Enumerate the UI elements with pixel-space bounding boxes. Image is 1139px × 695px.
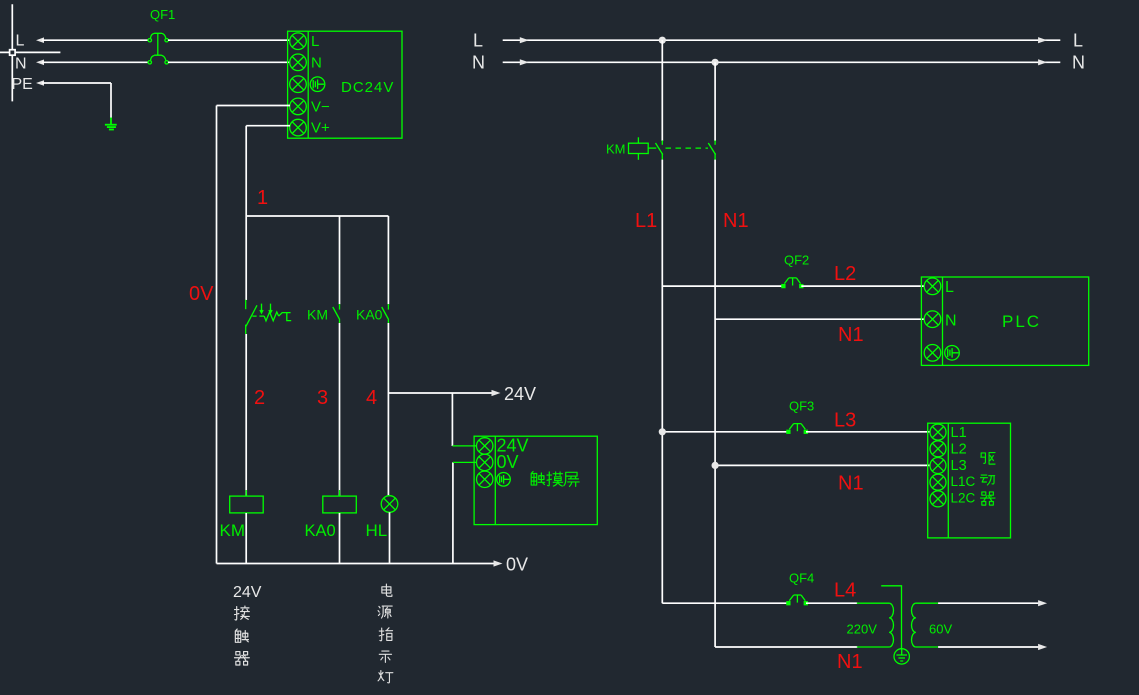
svg-text:L3: L3 (951, 458, 967, 474)
wire QF1 to DC24V L (168, 39, 290, 41)
wire touchscreen 0V down (452, 462, 454, 563)
svg-text:N: N (472, 53, 485, 73)
glyph dian (power indicator label) (382, 584, 392, 596)
svg-text:0V: 0V (506, 555, 528, 575)
terminal L1C of driver (930, 474, 946, 490)
svg-text:L: L (1073, 31, 1083, 51)
wire branch 3 to 0V bus (339, 513, 341, 564)
transformer T1 secondary winding (912, 603, 916, 647)
arrow L left (520, 37, 529, 43)
wire branch 4 to 0V bus (389, 512, 391, 563)
wire QF4 to transformer (806, 602, 858, 604)
wire branch 2 lower (245, 334, 247, 496)
label driver (qu dong qi) vertical (981, 453, 995, 465)
svg-text:L: L (311, 33, 319, 50)
wire branch 4 middle (387, 323, 389, 496)
servo driver unit box (928, 423, 1011, 538)
glyph chu (contactor label) (235, 629, 248, 642)
wire branch 3 upper (339, 216, 341, 304)
transformer shield wire (881, 586, 901, 649)
wire green primary top lead (857, 602, 889, 604)
svg-text:N1: N1 (837, 651, 863, 673)
svg-text:V−: V− (311, 99, 330, 116)
arrow N right (1038, 59, 1047, 65)
wire branch 3 lower (339, 323, 341, 496)
svg-text:N: N (945, 312, 957, 329)
arrow secondary top (1038, 600, 1047, 606)
svg-text:KA0: KA0 (305, 522, 336, 540)
svg-text:L1C: L1C (951, 474, 976, 489)
terminal L of PLC (924, 278, 941, 295)
svg-text:N: N (1072, 53, 1085, 73)
wire QF2 to PLC L (801, 285, 924, 287)
lamp HL (381, 496, 398, 513)
contact KA0 (NO auxiliary) (382, 304, 389, 323)
wire secondary top output (938, 602, 1040, 604)
terminal L1 of driver (930, 424, 946, 440)
wire L1 down to QF4 row (662, 602, 788, 604)
svg-text:L1: L1 (951, 425, 967, 441)
wire L drop upper (661, 40, 663, 141)
svg-text:24V: 24V (504, 384, 536, 404)
terminal L3 of driver (930, 458, 946, 474)
arrow 24V (492, 390, 501, 396)
glyph yuan (378, 606, 392, 618)
terminal 0V of touchscreen (477, 454, 493, 470)
linkage dashed (666, 147, 709, 149)
svg-text:PE: PE (12, 76, 33, 93)
ground (transformer earth) (894, 649, 909, 664)
svg-text:N: N (15, 56, 27, 73)
svg-text:L4: L4 (834, 580, 856, 602)
arrow L right (1038, 37, 1047, 43)
crosshair cursor (0, 4, 60, 101)
breaker QF3 (787, 399, 814, 434)
wire 0V bus (217, 563, 496, 565)
wire V+ to node 1 (246, 125, 290, 127)
wire N main (top right) (503, 61, 1061, 63)
svg-text:V+: V+ (311, 120, 330, 137)
wire V- to 0V rail (217, 105, 291, 107)
svg-text:4: 4 (366, 387, 377, 409)
wire L1 to QF3 (662, 431, 788, 433)
wire N1 to PLC N (715, 318, 924, 320)
wire L drop lower (661, 160, 663, 604)
svg-text:HL: HL (366, 521, 388, 540)
glyph zhi (379, 628, 392, 641)
switch S1 (branch 2 contact with release) (246, 300, 292, 334)
breaker QF2 (782, 253, 809, 288)
terminal L of DC24V (290, 33, 307, 50)
terminal N of DC24V (290, 54, 307, 71)
wire branch 2 upper (245, 216, 247, 300)
terminal 24V of touchscreen (477, 438, 493, 454)
svg-text:N: N (311, 55, 322, 72)
wire N drop lower (714, 160, 716, 647)
svg-text:N1: N1 (838, 324, 864, 346)
svg-text:KA0: KA0 (356, 307, 383, 323)
svg-text:N1: N1 (723, 210, 749, 232)
wire bus 1 (246, 215, 388, 217)
svg-text:KM: KM (307, 307, 328, 323)
svg-text:L1: L1 (635, 210, 657, 232)
power supply DC24V (288, 31, 402, 138)
glyph shi (379, 651, 391, 662)
svg-text:L2: L2 (951, 442, 967, 458)
svg-text:KM: KM (220, 521, 246, 540)
wire secondary bottom lead (916, 646, 938, 648)
coil KM (230, 490, 264, 519)
svg-text:3: 3 (317, 387, 328, 409)
junction dot N (712, 59, 719, 66)
terminal PE of touchscreen (477, 471, 493, 487)
wire PE to ground (36, 80, 111, 118)
wire N to QF1 (36, 60, 149, 66)
terminal PE of DC24V (290, 76, 307, 93)
wire L phase to QF1 (36, 37, 149, 43)
pin earth symbol (310, 77, 325, 92)
ground (PE earth symbol) (105, 118, 117, 130)
svg-text:QF2: QF2 (784, 253, 809, 268)
wire N1 to driver L3 (715, 464, 930, 466)
contact KM pole L (656, 140, 663, 159)
svg-text:24V: 24V (233, 584, 262, 601)
junction dot L (659, 37, 666, 44)
breaker QF4 (787, 571, 814, 605)
arrow 0V (494, 560, 503, 566)
svg-text:L2C: L2C (951, 491, 976, 506)
junction dot L1/QF3 (659, 428, 666, 435)
wire N drop upper (714, 62, 716, 141)
PLC unit box (921, 277, 1088, 365)
wire QF3 to driver L1 (806, 431, 931, 433)
svg-text:KM: KM (606, 142, 626, 157)
wire L main (top right) (503, 39, 1061, 41)
wire secondary bottom output (938, 646, 1040, 648)
breaker QF1 (2-pole) (148, 7, 175, 64)
arrow secondary bottom (1038, 644, 1047, 650)
svg-text:220V: 220V (847, 622, 878, 637)
wire N1 bottom to transformer (715, 646, 857, 648)
contactor KM coil (main) (606, 137, 656, 160)
wire down to touchscreen 24V (451, 393, 453, 446)
wire QF1 to DC24V N (168, 61, 290, 63)
coil KA0 (323, 490, 357, 519)
junction dot N1/driver (712, 462, 719, 469)
arrow N left (520, 59, 529, 65)
wire branch 4 upper (387, 216, 389, 304)
svg-text:QF1: QF1 (150, 7, 175, 22)
svg-text:QF3: QF3 (789, 399, 814, 414)
svg-text:L: L (945, 279, 954, 296)
svg-text:DC24V: DC24V (341, 79, 394, 96)
wire secondary top lead (916, 602, 938, 604)
wire branch 2 to 0V bus (245, 513, 247, 564)
wire L1 to QF2 (662, 285, 784, 287)
terminal V+ of DC24V (290, 119, 307, 136)
wire stub to 0V terminal (453, 461, 477, 463)
contact KM (NO auxiliary) (333, 304, 340, 323)
terminal N of PLC (924, 311, 941, 328)
svg-text:L3: L3 (834, 410, 856, 432)
svg-text:0V: 0V (189, 283, 214, 305)
glyph qi (contactor label) (235, 652, 250, 665)
touchscreen unit box (474, 436, 597, 524)
glyph deng (378, 671, 393, 683)
svg-text:L: L (16, 33, 25, 50)
svg-text:QF4: QF4 (789, 571, 814, 586)
contact KM pole N (708, 140, 715, 159)
transformer T1 primary winding (889, 603, 893, 647)
terminal V- of DC24V (290, 98, 307, 115)
wire stub to 24V terminal (452, 445, 476, 447)
svg-text:60V: 60V (929, 622, 952, 637)
svg-text:1: 1 (257, 187, 268, 209)
svg-text:N1: N1 (838, 473, 864, 495)
glyph jie (contactor label) (235, 606, 250, 620)
wire green primary bottom lead (857, 646, 889, 648)
label touchscreen (chu mo ping) (531, 471, 544, 485)
svg-text:0V: 0V (497, 452, 519, 472)
terminal L2C of driver (930, 491, 946, 507)
wire 0V rail vertical (216, 106, 218, 564)
terminal L2 of driver (930, 441, 946, 457)
wire node1 vertical (245, 126, 247, 216)
terminal PE of PLC (924, 345, 941, 362)
svg-text:2: 2 (254, 387, 265, 409)
svg-text:PLC: PLC (1002, 312, 1041, 331)
pin earth symbol plc (945, 346, 960, 361)
svg-text:L: L (473, 31, 483, 51)
wire 24V feed (388, 392, 494, 394)
svg-text:L2: L2 (834, 263, 856, 285)
pin earth symbol touchscreen (497, 473, 511, 487)
